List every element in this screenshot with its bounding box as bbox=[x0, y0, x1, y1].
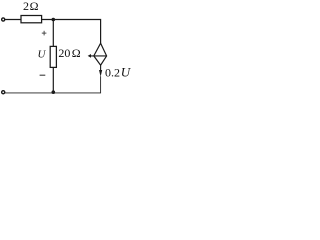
wire: resistor R2 down to bottom junction bbox=[52, 67, 54, 92]
wire: resistor R1 to top-right corner and down right branch bbox=[41, 20, 100, 44]
resistor R1 2ohm box bbox=[21, 16, 42, 23]
control arrow (points left through diamond) bbox=[90, 55, 106, 57]
label - (polarity of U) bbox=[40, 74, 46, 76]
terminal top-left bbox=[2, 18, 5, 21]
dependent current source U1: diamond bbox=[94, 43, 107, 65]
wire bottom: terminal to bottom-right corner and up to arrow bbox=[3, 76, 100, 93]
wire top-left: terminal to resistor R1 bbox=[3, 19, 21, 21]
svg-text:20Ω: 20Ω bbox=[58, 46, 80, 60]
svg-text:2Ω: 2Ω bbox=[23, 0, 39, 13]
label + (polarity of U) bbox=[42, 31, 47, 36]
node junction top (dot) bbox=[52, 18, 56, 22]
node junction bottom (dot) bbox=[52, 90, 56, 94]
current direction arrow (down) below diamond bbox=[100, 65, 102, 72]
terminal bottom-left bbox=[2, 91, 5, 94]
svg-text:0.2U: 0.2U bbox=[105, 65, 132, 80]
resistor R2 20ohm box bbox=[50, 46, 56, 67]
wire: top junction down to resistor R2 bbox=[52, 20, 54, 47]
svg-text:U: U bbox=[38, 49, 47, 61]
